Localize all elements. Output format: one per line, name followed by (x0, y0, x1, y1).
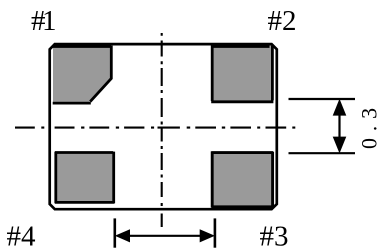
dimension 0.3 top extension line (289, 98, 356, 100)
pad #3 (211, 151, 273, 207)
dimension 0.3 up arrowhead (333, 99, 347, 116)
bottom dimension right arrowhead (200, 229, 215, 242)
pad #2 (211, 45, 273, 102)
package outline (chamfered corners) (50, 44, 277, 209)
pad #4 (55, 152, 115, 204)
bottom dimension arrow line (120, 235, 209, 237)
vertical center line (161, 33, 163, 227)
dimension 0.3 arrow line (338, 105, 340, 147)
dimension 0.3 down arrowhead (333, 137, 347, 154)
bottom dimension left arrowhead (115, 229, 130, 242)
svg-text:#3: #3 (260, 221, 289, 250)
bottom dimension right tick (214, 218, 217, 247)
dimension 0.3 bottom extension line (289, 152, 356, 154)
pad #1 (chamfered, pin 1 mark) (53, 45, 112, 103)
svg-text:#2: #2 (268, 5, 297, 37)
horizontal center line (15, 127, 295, 129)
svg-text:0.3: 0.3 (356, 101, 378, 149)
svg-text:#4: #4 (7, 221, 37, 250)
svg-text:#1: #1 (31, 5, 57, 37)
bottom dimension left tick (114, 218, 117, 247)
